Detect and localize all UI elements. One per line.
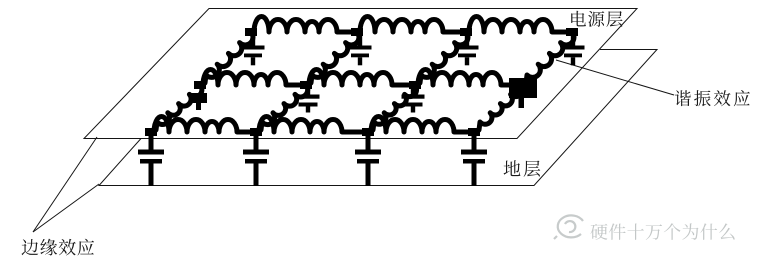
leader line edge-effect to power plane edge	[33, 137, 97, 232]
inductor LC12	[251, 17, 357, 33]
capacitor Cb1 (solid blob)	[190, 93, 207, 110]
inductor LB23	[306, 70, 415, 86]
inductor LA4B4 (diagonal)	[474, 85, 523, 132]
inductor LB12	[200, 70, 306, 86]
node C4	[566, 28, 578, 36]
capacitor C1 (plane-to-plane)	[138, 132, 164, 186]
capacitor Cc4 (back row)	[562, 32, 585, 65]
inductor LB2C2 (diagonal)	[306, 32, 359, 85]
watermark 硬件十万个为什么	[591, 223, 735, 240]
capacitor C4 (plane-to-plane)	[461, 132, 487, 186]
capacitor Cb3 (middle row)	[402, 85, 425, 113]
inductor LB1C1 (diagonal)	[200, 32, 253, 85]
capacitor Cb2 (middle row)	[297, 85, 320, 113]
capacitor Cc2 (back row)	[349, 32, 372, 65]
capacitor Cc1 (back row)	[242, 32, 265, 65]
node B2	[300, 81, 312, 89]
watermark logo	[554, 215, 583, 239]
label 电源层	[571, 11, 622, 27]
inductor LC34	[466, 17, 572, 33]
capacitor C3 (plane-to-plane)	[355, 132, 381, 186]
node A2	[250, 128, 262, 136]
inductor LA23	[256, 116, 368, 132]
node A1	[145, 128, 157, 136]
label 地层	[504, 160, 541, 177]
node C1	[245, 28, 257, 36]
ground plane (bottom parallelogram, partially hidden)	[99, 50, 657, 186]
node B3	[409, 81, 421, 89]
label 边缘效应	[22, 239, 95, 256]
node A3	[362, 128, 374, 136]
inductor LB3C3 (diagonal)	[415, 32, 468, 85]
node C3	[460, 28, 472, 36]
inductor LA2B2 (diagonal)	[256, 85, 308, 132]
inductor LA12	[151, 116, 256, 132]
node B4	[515, 81, 527, 89]
inductor LB4C4 (diagonal)	[521, 32, 574, 85]
capacitor C2 (plane-to-plane)	[243, 132, 269, 186]
capacitor Cc3 (back row)	[456, 32, 479, 65]
inductor LA34	[368, 116, 474, 132]
node A4	[468, 128, 480, 136]
leader line edge-effect to ground plane corner	[33, 184, 99, 232]
inductor LA1B1 (diagonal)	[151, 85, 202, 132]
inductor LB34	[415, 70, 521, 86]
power plane (top parallelogram)	[84, 9, 637, 139]
label 谐振效应	[675, 90, 750, 106]
inductor LA3B3 (diagonal)	[368, 85, 417, 132]
inductor LC23	[357, 17, 466, 33]
capacitor Cb4 (solid blob)	[509, 78, 537, 108]
leader line to 谐振效应	[556, 60, 674, 95]
node C2	[351, 28, 363, 36]
node B1	[194, 81, 206, 89]
